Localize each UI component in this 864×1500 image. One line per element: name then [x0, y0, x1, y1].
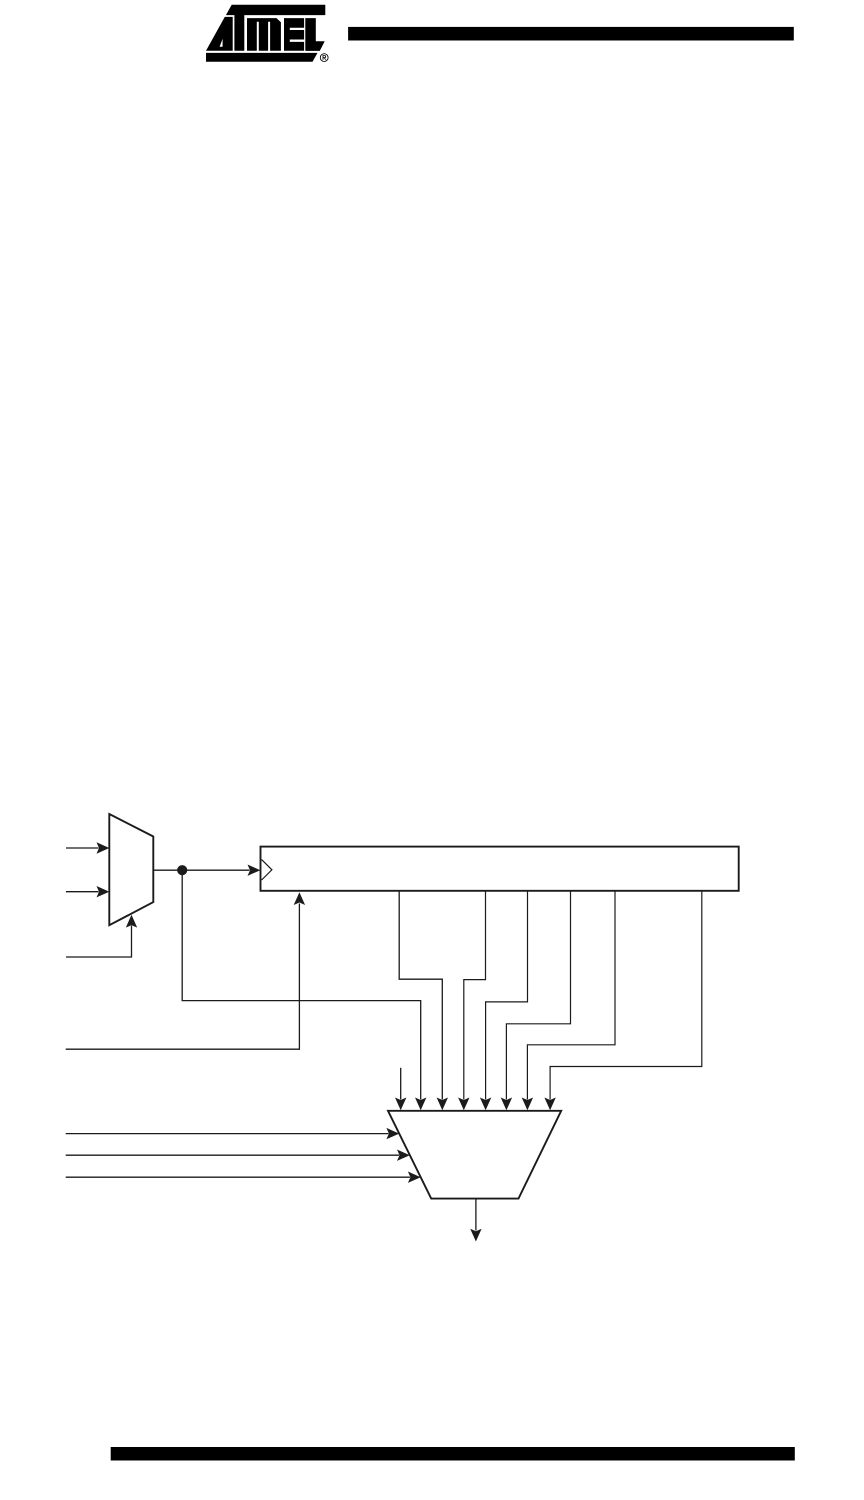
wire: register drop D3	[501, 891, 571, 1110]
wire: mux M1 select	[66, 915, 137, 957]
top title rule	[348, 27, 794, 41]
wire: mux M2 analog input 2	[66, 1150, 410, 1161]
wire: data-in to register bottom	[66, 892, 305, 1049]
register	[261, 847, 739, 891]
wire: mux M2 output	[470, 1199, 481, 1242]
Atmel logo	[206, 5, 325, 62]
logo letter M	[247, 18, 281, 51]
logo top bar	[226, 5, 325, 15]
wire: register drop D5	[544, 891, 701, 1110]
wire: mux M1 input 0	[66, 842, 109, 853]
wire: short input arrow to mux M2	[395, 1068, 406, 1111]
analog mux M2 (output multiplexer)	[388, 1111, 561, 1199]
mux M1 (2-input multiplexer)	[109, 814, 153, 925]
wire: register drop D2	[480, 891, 528, 1110]
wire: mux M2 analog input 3	[66, 1172, 421, 1183]
wire: register drop D4	[522, 891, 615, 1110]
wire: register drop D0	[399, 891, 448, 1110]
logo bottom bar	[206, 53, 318, 62]
logo letter A	[206, 17, 233, 51]
wire: mux M2 analog input 1	[66, 1128, 400, 1139]
junction dot	[177, 865, 187, 875]
wire: junction branch to mux M2 bit1	[182, 875, 426, 1111]
wire: mux M1 output to register	[153, 865, 260, 876]
logo letter T	[234, 15, 244, 51]
bottom footer rule	[111, 1447, 795, 1461]
wire: mux M1 input 1	[66, 886, 109, 897]
logo letter E	[284, 18, 304, 51]
register clock chevron	[262, 860, 272, 880]
wire: register drop D1	[458, 891, 485, 1110]
logo registered trademark symbol	[320, 54, 328, 62]
logo letter L	[305, 18, 324, 51]
